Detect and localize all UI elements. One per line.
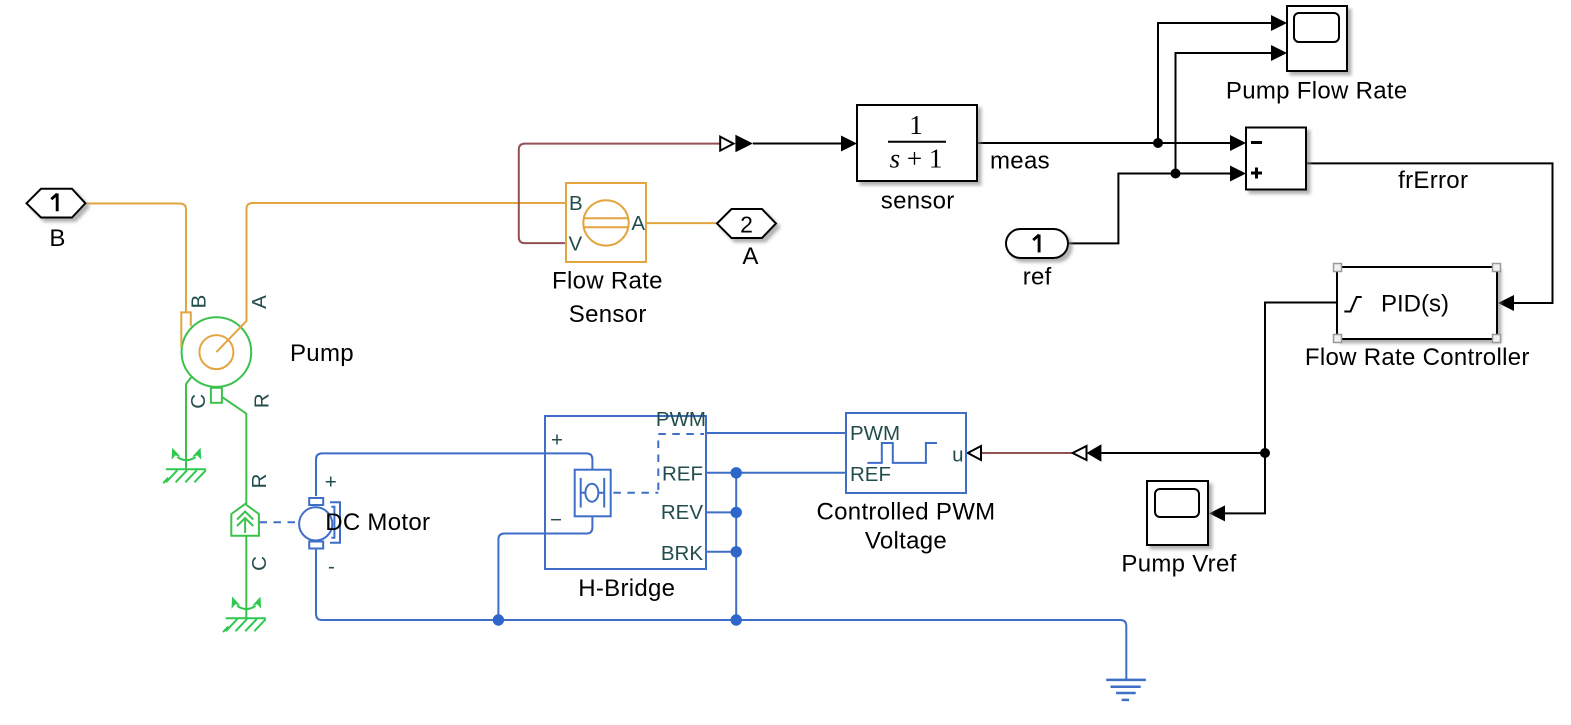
wire orange: port B hexagon to Pump B tab	[86, 204, 186, 313]
block: Inport hexagon 1 (B)	[27, 189, 86, 218]
svg-text:−: −	[550, 509, 562, 532]
wire green: motion sensor C down to rotational ground 2	[245, 536, 247, 618]
svg-text:+: +	[551, 429, 563, 452]
arrowhead: into transfer fcn	[841, 136, 857, 152]
physical signal input port triangle at u	[968, 446, 981, 460]
block: Flow Rate Sensor (orange)	[566, 183, 646, 262]
internal + wire	[545, 453, 592, 469]
wire black: PID out down to junction	[1265, 303, 1337, 454]
wire blue: H-Bridge REV stub	[706, 511, 736, 513]
node: REF bus top	[731, 467, 742, 478]
wire black: branch up to scope input 1	[1158, 23, 1272, 143]
node: BRK bus	[731, 546, 742, 557]
selection handles	[1334, 264, 1501, 343]
wire maroon: converter to u port of Controlled PWM Voltage	[981, 452, 1072, 454]
node: meas branch	[1153, 138, 1163, 148]
arrowhead: into sum minus	[1230, 135, 1246, 151]
svg-text:BRK: BRK	[661, 542, 703, 565]
svg-text:+: +	[325, 471, 337, 494]
pump shaft tab	[211, 388, 222, 403]
wire orange: sensor A to port 2 hexagon	[646, 222, 717, 224]
svg-text:Sensor: Sensor	[569, 301, 647, 328]
wire blue: REF-REV-BRK bus down to bottom bus	[735, 473, 737, 620]
electrical reference ground (blue)	[1106, 680, 1146, 700]
svg-text:PID(s): PID(s)	[1381, 291, 1449, 318]
wire blue dashed: motion sensor to DC motor	[260, 521, 297, 523]
node: bottom bus left	[493, 614, 504, 625]
arrowhead: into PID input (left)	[1498, 295, 1514, 311]
pump B tab	[181, 312, 191, 347]
svg-text:Pump: Pump	[290, 340, 354, 367]
svg-text:1: 1	[909, 110, 923, 140]
wire black: transfer fcn out (meas) to sum minus input	[977, 142, 1231, 144]
svg-text:2: 2	[740, 212, 753, 238]
svg-text:A: A	[248, 295, 271, 309]
svg-text:ref: ref	[1023, 264, 1052, 291]
svg-text:C: C	[187, 394, 210, 409]
H-bridge motor icon	[575, 470, 611, 517]
arrowhead: into scope input 1	[1271, 15, 1287, 31]
internal - wire	[545, 516, 592, 533]
svg-text:B: B	[569, 192, 583, 215]
arrowhead: into sum plus	[1230, 166, 1246, 182]
wire blue: H-Bridge - port to bottom bus	[498, 534, 545, 621]
svg-text:sensor: sensor	[881, 188, 955, 215]
svg-text:B: B	[188, 295, 211, 309]
block: scope Pump Flow Rate	[1287, 6, 1347, 71]
wire blue: H-Bridge REF to Controlled PWM Voltage REF	[706, 472, 846, 474]
block: ref round inport	[1006, 229, 1068, 258]
wire black: ref port to sum plus input	[1068, 174, 1231, 244]
block: ideal rotational motion sensor (pentagon)	[231, 504, 259, 536]
wire black: sum out frError to PID input	[1306, 163, 1553, 303]
arrowhead: into Pump Vref scope (left)	[1209, 505, 1225, 521]
svg-text:u: u	[952, 444, 963, 467]
wire green: pump C to rotational ground 1	[186, 377, 192, 469]
svg-text:frError: frError	[1398, 167, 1468, 194]
svg-text:V: V	[569, 233, 583, 256]
svg-text:A: A	[742, 243, 758, 270]
svg-text:R: R	[248, 474, 271, 489]
rotational ground 1	[163, 448, 206, 484]
wire maroon: sensor V up to PS-Simulink converter	[519, 144, 720, 244]
svg-text:R: R	[251, 393, 274, 408]
dashed link to PWM port	[613, 434, 704, 493]
block: transfer fcn sensor 1/(s+1)	[857, 105, 977, 181]
svg-text:meas: meas	[990, 147, 1050, 174]
arrowhead: into scope input 2	[1271, 45, 1287, 61]
Simulink-PS converter: solid + hollow triangles (pointing left)	[1087, 444, 1102, 461]
rotational ground 2	[223, 597, 266, 633]
svg-text:Pump Flow Rate: Pump Flow Rate	[1226, 78, 1408, 105]
node: bottom bus right	[731, 614, 742, 625]
svg-text:DC Motor: DC Motor	[325, 509, 430, 536]
wire blue: DC motor + up to H-Bridge +	[316, 453, 545, 496]
svg-text:s + 1: s + 1	[890, 144, 943, 174]
block: Outport hexagon 2 (A)	[717, 209, 776, 238]
wire black: converter to sensor transfer fcn	[753, 143, 841, 145]
svg-text:H-Bridge: H-Bridge	[578, 575, 675, 602]
wire orange: Pump A diagonal up to Flow Rate Sensor B	[216, 203, 566, 352]
svg-text:REF: REF	[850, 463, 891, 486]
wire black: junction down to Pump Vref scope	[1224, 453, 1265, 513]
wire blue: DC motor - down to bottom bus and electrical reference	[316, 548, 1126, 680]
svg-text:Controlled PWM: Controlled PWM	[817, 498, 996, 525]
wire green: pump R down to motion sensor R	[222, 397, 246, 504]
block: scope Pump Vref (mirrored)	[1147, 481, 1208, 545]
svg-text:A: A	[631, 212, 645, 235]
svg-text:B: B	[49, 225, 65, 252]
block: Pump (green circle)	[182, 317, 252, 387]
svg-text:REV: REV	[661, 501, 703, 524]
block: H-Bridge	[545, 416, 706, 569]
svg-text:Flow Rate Controller: Flow Rate Controller	[1305, 344, 1530, 371]
block: PID Flow Rate Controller	[1337, 267, 1497, 339]
block: Controlled PWM Voltage	[846, 413, 966, 493]
svg-text:Voltage: Voltage	[865, 528, 947, 555]
svg-text:-: -	[328, 555, 335, 578]
node: controller output branch	[1260, 448, 1270, 458]
svg-text:REF: REF	[662, 463, 703, 486]
block: sum	[1246, 128, 1306, 190]
svg-text:C: C	[248, 556, 271, 571]
svg-text:Flow Rate: Flow Rate	[552, 268, 663, 295]
svg-text:PWM: PWM	[656, 408, 706, 431]
node: ref branch	[1171, 169, 1181, 179]
wire blue: H-Bridge BRK stub	[706, 551, 736, 553]
node: REV bus	[731, 507, 742, 518]
svg-text:Pump Vref: Pump Vref	[1121, 551, 1236, 578]
PS-Simulink converter: hollow + solid triangles	[720, 137, 733, 151]
wire blue: H-Bridge PWM to Controlled PWM Voltage PWM	[706, 432, 846, 434]
wire black: junction left to Simulink-PS converter	[1101, 452, 1265, 454]
wire black: branch up to scope input 2	[1176, 53, 1273, 174]
svg-text:PWM: PWM	[850, 422, 900, 445]
block: DC Motor	[299, 507, 332, 540]
